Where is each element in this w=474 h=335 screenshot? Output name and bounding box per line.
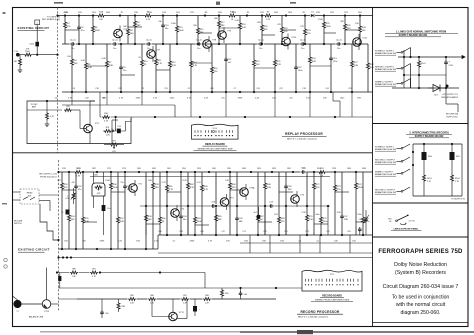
label record supply feed bbox=[39, 174, 57, 179]
svg-text:R81: R81 bbox=[92, 269, 95, 271]
transistor VT9 bbox=[218, 27, 232, 43]
wire bias jogs replay bbox=[65, 27, 360, 75]
capacitor C9 (22u) bbox=[119, 44, 127, 92]
resistor R10 (1K) bbox=[138, 44, 148, 92]
svg-text:47K: 47K bbox=[316, 187, 320, 189]
node signal bus taps replay bbox=[78, 43, 361, 45]
capacitor C3 series coupling bbox=[146, 40, 152, 50]
capacitor C8 (47n) bbox=[77, 16, 85, 45]
resistor R18 (5.6K) bbox=[235, 16, 247, 45]
divider under replay-supply panel bbox=[373, 123, 469, 125]
wire staircase to bus bbox=[40, 204, 59, 240]
label tag record-supply input 1 bbox=[375, 147, 396, 152]
svg-text:To be used in conjunction: To be used in conjunction bbox=[392, 294, 450, 300]
resistor R16 (12K) bbox=[211, 44, 219, 92]
resistor R31 (1.2K) bbox=[103, 127, 111, 136]
svg-text:330K: 330K bbox=[238, 98, 243, 100]
svg-text:LINKS IN FRONT PANEL: LINKS IN FRONT PANEL bbox=[394, 228, 420, 231]
svg-text:100K: 100K bbox=[171, 23, 176, 25]
switch contact S5 bbox=[401, 157, 410, 162]
resistor R9 (18K) bbox=[134, 16, 142, 45]
svg-text:C{i+1}: C{i+1} bbox=[336, 40, 342, 42]
svg-text:EXISTING CIRCUIT: EXISTING CIRCUIT bbox=[18, 248, 50, 252]
svg-text:NB (T?) is a 400-062 component: NB (T?) is a 400-062 component bbox=[298, 315, 329, 318]
label EXISTING CIRCUIT (record) bbox=[18, 248, 50, 253]
switch contact S1 bbox=[401, 48, 410, 54]
svg-text:82K: 82K bbox=[264, 29, 268, 31]
output arrow symbol bbox=[459, 56, 465, 59]
svg-text:47K: 47K bbox=[67, 26, 71, 28]
capacitor C61 trimmer bbox=[359, 210, 369, 235]
section divider line bbox=[13, 152, 373, 154]
node input joins board bbox=[56, 54, 58, 56]
capacitor C56 (82K) bbox=[284, 172, 292, 235]
wire module to boundary bbox=[39, 195, 59, 211]
svg-text:6.8K: 6.8K bbox=[120, 221, 125, 223]
right column divider bbox=[372, 8, 374, 327]
svg-text:C7: C7 bbox=[234, 88, 236, 90]
0V rail replay supply bbox=[392, 87, 459, 89]
label record board connector bbox=[311, 295, 353, 302]
svg-text:2.2K: 2.2K bbox=[204, 98, 209, 100]
zener diode ZD1 bbox=[433, 85, 449, 97]
svg-text:4.7K: 4.7K bbox=[76, 176, 81, 178]
resistor R17 (68K) bbox=[214, 16, 225, 45]
svg-text:100n: 100n bbox=[340, 98, 344, 100]
resistor R8 (56K) bbox=[123, 16, 134, 45]
svg-text:4.7K: 4.7K bbox=[104, 121, 109, 123]
svg-text:10u: 10u bbox=[337, 48, 340, 50]
signal bus (replay) bbox=[62, 43, 368, 45]
wire from tag bbox=[397, 148, 402, 150]
resistor R86 series low-level bbox=[148, 295, 157, 304]
note heading replay supply links bbox=[385, 31, 458, 37]
transistor VT12 mic amp bbox=[169, 299, 185, 321]
svg-text:5.6K: 5.6K bbox=[267, 187, 272, 189]
resistor R101 (1K) bbox=[418, 57, 426, 88]
resistor R54 (10K) bbox=[68, 172, 76, 249]
node record rail taps bbox=[57, 171, 357, 173]
wire lower stubs record bbox=[250, 235, 350, 253]
transistor VT4A bbox=[240, 184, 255, 200]
label existing loop values bbox=[30, 98, 105, 109]
svg-text:diagram 250-060.: diagram 250-060. bbox=[401, 310, 441, 316]
svg-text:330K: 330K bbox=[190, 241, 195, 243]
svg-text:BREAKTHROUGH SW: BREAKTHROUGH SW bbox=[375, 52, 396, 55]
resistor R25 (150K) bbox=[318, 16, 331, 45]
svg-text:2.2K: 2.2K bbox=[306, 98, 311, 100]
label feedback return bbox=[446, 113, 459, 119]
capacitor C60 bbox=[239, 288, 247, 299]
svg-text:12K: 12K bbox=[232, 187, 236, 189]
wire from tag bbox=[397, 173, 402, 175]
svg-text:100n: 100n bbox=[323, 221, 329, 223]
return wire B bbox=[158, 252, 373, 254]
existing/new boundary dashed line (record) bbox=[58, 160, 60, 312]
input terminal J1 bbox=[16, 53, 20, 57]
wire emitter down bbox=[89, 132, 91, 144]
resistor R75 (220n) bbox=[357, 172, 370, 235]
svg-text:SUPPLY BD.: SUPPLY BD. bbox=[446, 116, 458, 118]
svg-text:C{i+1}: C{i+1} bbox=[70, 40, 76, 42]
node 0V junctions bbox=[418, 87, 447, 89]
svg-text:56K: 56K bbox=[130, 33, 134, 35]
0V bus record (left part) bbox=[59, 235, 159, 249]
switch contact S7 bbox=[401, 187, 410, 192]
resistor R88 series low-level bbox=[203, 295, 212, 304]
wire feedback loop outline bbox=[27, 101, 131, 144]
svg-text:C51: C51 bbox=[284, 231, 287, 233]
svg-text:47K: 47K bbox=[64, 187, 68, 189]
svg-text:12K: 12K bbox=[214, 71, 218, 73]
wire input to resistor bbox=[20, 54, 24, 56]
relay RLA (record mute) bbox=[422, 144, 433, 174]
connector PL1 replay board edge bbox=[192, 124, 239, 139]
label RECORD PROCESSOR bbox=[297, 310, 343, 319]
wire bias jogs record bbox=[62, 190, 366, 225]
svg-text:3.9K: 3.9K bbox=[344, 219, 349, 221]
svg-text:2.2K: 2.2K bbox=[266, 19, 271, 21]
wire from tag bbox=[397, 68, 402, 70]
svg-text:47n: 47n bbox=[71, 182, 74, 184]
svg-text:SPARE LT SUPPLY: SPARE LT SUPPLY bbox=[375, 171, 394, 174]
svg-text:C52: C52 bbox=[263, 231, 266, 233]
svg-text:SPARE LT SUPPLY: SPARE LT SUPPLY bbox=[375, 81, 394, 84]
svg-text:20 10: 20 10 bbox=[213, 128, 218, 130]
resistor R13 (100K) bbox=[171, 16, 184, 45]
capacitor C52 (47n) bbox=[71, 172, 82, 249]
resistor R27 (1.8K) bbox=[351, 44, 359, 92]
resistor R12 (8.2K) bbox=[169, 44, 177, 92]
svg-text:1.2K: 1.2K bbox=[106, 134, 111, 136]
svg-text:4.7K: 4.7K bbox=[68, 98, 73, 100]
trimmer RV2 bbox=[65, 188, 76, 204]
divider under record-supply panel bbox=[373, 202, 469, 204]
svg-text:8.2K: 8.2K bbox=[183, 180, 188, 182]
wire from tag bbox=[397, 191, 402, 193]
capacitor C57 (3.9K) bbox=[337, 172, 349, 235]
ic IC1 dolby level module bbox=[92, 172, 105, 208]
connector PL2 pins bbox=[305, 279, 359, 286]
resistor R23 (27K) bbox=[300, 16, 311, 45]
capacitor C55 (68K) bbox=[235, 172, 243, 235]
svg-text:27K: 27K bbox=[337, 189, 341, 191]
svg-text:C4: C4 bbox=[73, 88, 75, 90]
capacitor C66 electrolytic under IC1 bbox=[102, 205, 111, 235]
svg-text:15K: 15K bbox=[281, 221, 285, 223]
svg-text:68K: 68K bbox=[221, 25, 225, 27]
scan marks left edge bbox=[2, 12, 7, 268]
svg-text:R86: R86 bbox=[150, 295, 153, 297]
wire from tag bbox=[397, 161, 402, 163]
diode D52 bbox=[257, 207, 260, 219]
resistor R68 (5.6K) bbox=[264, 172, 272, 235]
scan marks top edge bbox=[54, 2, 296, 5]
svg-text:3.3K: 3.3K bbox=[88, 67, 93, 69]
label speckle rows record bbox=[62, 168, 367, 242]
svg-text:VT12: VT12 bbox=[179, 312, 185, 314]
svg-text:10u: 10u bbox=[113, 48, 116, 50]
svg-text:C23: C23 bbox=[118, 88, 121, 90]
svg-text:REC BOARD (LK1): REC BOARD (LK1) bbox=[42, 18, 60, 21]
svg-text:C72: C72 bbox=[221, 231, 224, 233]
svg-text:27K: 27K bbox=[307, 33, 311, 35]
resistor R103 bbox=[423, 174, 432, 196]
capacitor C2 series coupling bbox=[112, 40, 118, 50]
label tag replay-supply input 1 bbox=[375, 51, 396, 56]
svg-text:R80: R80 bbox=[72, 269, 75, 271]
svg-text:6.8K: 6.8K bbox=[102, 58, 107, 60]
svg-text:10K: 10K bbox=[71, 219, 75, 221]
transistor VT7 bbox=[147, 46, 161, 62]
svg-text:2.2K: 2.2K bbox=[309, 219, 314, 221]
node staircase joins bbox=[57, 239, 72, 259]
svg-text:5.6K: 5.6K bbox=[242, 27, 247, 29]
node return taps bbox=[56, 271, 161, 273]
capacitor C102 bbox=[110, 120, 117, 144]
svg-text:120K: 120K bbox=[105, 180, 110, 182]
resistor R67 (4u7) bbox=[253, 172, 264, 235]
resistor R4 (10K) bbox=[67, 44, 78, 92]
wire from tag bbox=[397, 83, 402, 85]
svg-text:BALANCE LINE: BALANCE LINE bbox=[29, 316, 44, 319]
wire mic amp links bbox=[152, 299, 187, 319]
label to links on record board bbox=[42, 16, 61, 21]
node rail junctions bbox=[409, 56, 447, 58]
svg-text:C65: C65 bbox=[200, 231, 203, 233]
label replay board connector bbox=[194, 143, 237, 150]
second rail (record bias) bbox=[90, 175, 330, 177]
svg-text:C18: C18 bbox=[95, 88, 98, 90]
node lower-left bus taps bbox=[61, 248, 147, 250]
wire border to module bbox=[13, 192, 21, 200]
svg-text:1.8K: 1.8K bbox=[354, 65, 359, 67]
return wire A bbox=[240, 242, 373, 244]
capacitor C53 (22u) bbox=[120, 172, 131, 249]
svg-text:150K: 150K bbox=[358, 187, 364, 189]
svg-text:FERROGRAPH SERIES 75D: FERROGRAPH SERIES 75D bbox=[378, 249, 463, 255]
svg-text:(0V): (0V) bbox=[94, 175, 98, 177]
svg-text:330K: 330K bbox=[100, 241, 105, 243]
node link join bbox=[36, 54, 38, 56]
svg-text:4.7K: 4.7K bbox=[146, 19, 151, 21]
capacitor C13 (220n) bbox=[329, 44, 338, 92]
svg-text:5.6K: 5.6K bbox=[235, 20, 240, 22]
label REPLAY PROCESSOR bbox=[282, 132, 327, 140]
svg-text:6.8K: 6.8K bbox=[109, 65, 114, 67]
relay RLB (bias switch) bbox=[450, 144, 461, 174]
svg-text:C19: C19 bbox=[164, 88, 167, 90]
svg-text:REPLAY PROCESSOR: REPLAY PROCESSOR bbox=[285, 132, 323, 136]
wire switch vertical bus bbox=[403, 50, 405, 88]
svg-text:3.9K: 3.9K bbox=[337, 212, 342, 214]
svg-text:10u: 10u bbox=[107, 208, 110, 210]
wire mid stubs record bbox=[146, 206, 328, 235]
svg-text:2.7K: 2.7K bbox=[162, 182, 167, 184]
svg-text:100K: 100K bbox=[179, 30, 185, 32]
resistor R19 (15K) bbox=[253, 44, 261, 92]
module head-switch dashed box bbox=[20, 189, 39, 204]
resistor R61 (2.7K) bbox=[162, 172, 174, 235]
svg-text:10u: 10u bbox=[197, 48, 200, 50]
wire bias loop under return bbox=[103, 117, 131, 131]
node loop top bbox=[46, 100, 48, 102]
svg-text:4.7K: 4.7K bbox=[208, 241, 213, 243]
svg-text:3.9K: 3.9K bbox=[312, 61, 317, 63]
title block inner bottom line bbox=[373, 322, 469, 324]
node bus joints bbox=[412, 143, 453, 166]
svg-text:C{i+1}: C{i+1} bbox=[146, 40, 152, 42]
svg-text:BREAKTHROUGH SW: BREAKTHROUGH SW bbox=[375, 68, 396, 71]
node return tap bbox=[115, 116, 117, 118]
resistor R90 bbox=[221, 288, 229, 299]
transistor VT11 bbox=[353, 34, 368, 50]
svg-text:4.7K: 4.7K bbox=[119, 98, 124, 100]
capacitor C51 series rail bbox=[300, 168, 306, 174]
connector PL2 record board edge bbox=[302, 270, 362, 291]
signal bus (record) bbox=[140, 205, 330, 207]
capacitor C100 (screened) bbox=[29, 42, 39, 55]
diode D1 on rail bbox=[310, 12, 315, 18]
resistor R15 (39K) bbox=[193, 16, 204, 45]
svg-text:SW: SW bbox=[28, 196, 31, 198]
svg-text:R103: R103 bbox=[427, 178, 432, 180]
resistor R87 series low-level bbox=[181, 295, 190, 304]
svg-text:TO LINKS ON: TO LINKS ON bbox=[47, 16, 61, 18]
resistor R71 (47K) bbox=[313, 172, 321, 235]
transistor VT6 bbox=[114, 26, 128, 42]
resistor R72 (100n) bbox=[315, 172, 328, 235]
resistor R85 series low-level bbox=[128, 295, 137, 304]
svg-text:6.8K: 6.8K bbox=[370, 67, 375, 69]
svg-text:C25: C25 bbox=[348, 88, 351, 90]
svg-text:R101: R101 bbox=[421, 63, 426, 65]
svg-text:R104: R104 bbox=[455, 178, 460, 180]
svg-text:8.2K: 8.2K bbox=[172, 65, 177, 67]
resistor R69 (15K) bbox=[274, 172, 285, 235]
resistor R66 (12K) bbox=[225, 172, 236, 235]
svg-text:RECORD BOARD: RECORD BOARD bbox=[322, 295, 342, 298]
svg-text:TO SUPPLY 0V: TO SUPPLY 0V bbox=[451, 199, 466, 201]
svg-text:10u: 10u bbox=[259, 48, 262, 50]
wire from tag bbox=[397, 52, 402, 54]
svg-text:C60: C60 bbox=[244, 294, 247, 296]
transistor VT13 mic stage bbox=[42, 300, 51, 313]
svg-text:C2 ON: C2 ON bbox=[409, 221, 416, 223]
switch contact S4 bbox=[401, 144, 410, 149]
svg-text:VIEWED FROM COMPONENT SIDE: VIEWED FROM COMPONENT SIDE bbox=[197, 148, 233, 150]
svg-text:C{i+1}: C{i+1} bbox=[258, 40, 264, 42]
wire resistor to transistor base bbox=[72, 109, 80, 111]
capacitor C58 series bbox=[210, 202, 216, 208]
svg-text:4.7K: 4.7K bbox=[193, 65, 198, 67]
transistor VT5 bbox=[291, 191, 305, 207]
wire stage ground stubs bbox=[72, 92, 352, 117]
svg-text:C58: C58 bbox=[179, 231, 182, 233]
wire loop stub bbox=[112, 119, 118, 121]
svg-text:56K: 56K bbox=[148, 219, 152, 221]
svg-text:2.7K: 2.7K bbox=[158, 63, 163, 65]
capacitor C63 feed bbox=[58, 273, 61, 289]
svg-text:4.7K: 4.7K bbox=[197, 182, 202, 184]
svg-text:+12V SUPPLY TO: +12V SUPPLY TO bbox=[442, 94, 459, 96]
svg-text:3.3K: 3.3K bbox=[81, 60, 86, 62]
wire right edge drop to panel bbox=[333, 92, 340, 117]
svg-text:ZD1: ZD1 bbox=[434, 95, 438, 97]
capacitor C64 bbox=[100, 299, 108, 318]
svg-text:REPLAY BOARDS: REPLAY BOARDS bbox=[441, 96, 458, 99]
resistor R58 (56K) bbox=[145, 172, 153, 249]
svg-text:39K: 39K bbox=[218, 219, 222, 221]
resistor R30 series return (4.7K) bbox=[102, 113, 111, 122]
resistor R11 (2.7K) bbox=[155, 44, 163, 92]
+12V rail replay supply bbox=[398, 56, 459, 58]
svg-text:2.2K: 2.2K bbox=[302, 212, 307, 214]
svg-text:BREAKTHROUGH SW: BREAKTHROUGH SW bbox=[375, 191, 396, 194]
resistor R1B series rail (1K) bbox=[228, 12, 236, 22]
svg-text:C{i+1}: C{i+1} bbox=[196, 40, 202, 42]
resistor R21 (2.2K) bbox=[274, 44, 282, 92]
link box LK2 bbox=[35, 20, 40, 25]
wire down to next panel bbox=[446, 88, 458, 112]
wire connector feed upper bbox=[59, 287, 303, 289]
svg-text:R89: R89 bbox=[122, 306, 125, 308]
label tag replay-supply input 2 bbox=[375, 66, 396, 72]
svg-text:RECORD PROCESSOR: RECORD PROCESSOR bbox=[300, 310, 340, 314]
label tag record-supply input 2 bbox=[375, 160, 396, 165]
svg-text:4.7K: 4.7K bbox=[153, 98, 158, 100]
resistor R20 (82K) bbox=[257, 16, 268, 45]
transistor VT10 bbox=[282, 34, 297, 50]
label +12V supply to replay boards bbox=[441, 94, 458, 99]
svg-text:C59: C59 bbox=[347, 231, 350, 233]
svg-text:18K: 18K bbox=[155, 187, 159, 189]
resistor R14 (4.7K) bbox=[190, 44, 198, 92]
svg-text:1M: 1M bbox=[14, 61, 17, 63]
transistor VT2 bbox=[171, 205, 185, 221]
resistor R3 (47K) bbox=[64, 16, 72, 45]
svg-text:C64: C64 bbox=[105, 313, 108, 315]
svg-text:10K: 10K bbox=[362, 30, 366, 32]
connector PL1 pins bbox=[194, 130, 233, 136]
svg-text:SWITCH: SWITCH bbox=[14, 223, 22, 225]
svg-text:AMP: AMP bbox=[32, 106, 37, 109]
svg-text:100K: 100K bbox=[197, 221, 203, 223]
wire transistor to boundary bbox=[51, 303, 59, 305]
svg-text:C18: C18 bbox=[302, 88, 305, 90]
transformer T1 mic input bbox=[13, 300, 21, 313]
svg-text:VIEWED FROM COMPONENT SIDE: VIEWED FROM COMPONENT SIDE bbox=[315, 300, 350, 302]
wire link to cap bbox=[36, 25, 38, 42]
transistor VT1 bbox=[129, 180, 143, 196]
0V bus (replay) bbox=[62, 91, 373, 93]
potentiometer RV1 (47K) bbox=[104, 141, 124, 153]
capacitor C54 (33n) bbox=[179, 172, 187, 235]
svg-text:BREAKTHROUGH SW: BREAKTHROUGH SW bbox=[375, 173, 396, 176]
svg-text:BREAKTHROUGH SW: BREAKTHROUGH SW bbox=[375, 83, 396, 86]
mid rail replay supply bbox=[404, 74, 446, 76]
svg-text:C6: C6 bbox=[55, 98, 57, 100]
wire transistor up bbox=[46, 268, 48, 300]
svg-text:8.2K: 8.2K bbox=[190, 187, 195, 189]
svg-text:VT10: VT10 bbox=[291, 37, 297, 39]
svg-text:R87: R87 bbox=[183, 295, 186, 297]
svg-text:47K: 47K bbox=[284, 31, 288, 33]
svg-text:BREAKTHROUGH SW: BREAKTHROUGH SW bbox=[375, 148, 396, 151]
resistor R81 series (4.7K) bbox=[90, 269, 99, 278]
scan shadow bottom edge bbox=[40, 330, 474, 334]
svg-text:68K: 68K bbox=[239, 221, 243, 223]
